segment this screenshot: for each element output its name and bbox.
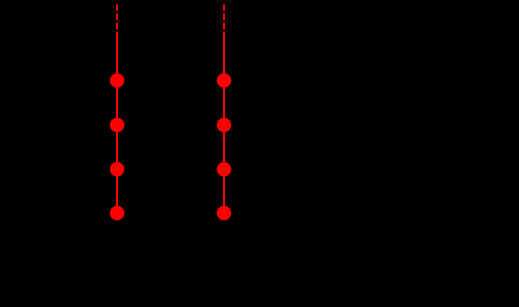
chain 1 site dot 3 — [110, 162, 125, 177]
chain 1 site dot 2 — [110, 118, 125, 133]
chain 2 site dot 3 — [217, 162, 232, 177]
chain 1 site dot 1 — [110, 73, 125, 88]
chain 2 dashed wire (top) — [223, 4, 225, 29]
chain 1 dashed wire (top) — [116, 4, 118, 29]
chain 2 site dot 4 — [217, 206, 232, 221]
chain 1 solid wire — [116, 32, 118, 221]
chain 2 solid wire — [223, 32, 225, 221]
chain 2 site dot 2 — [217, 118, 232, 133]
chain 2 site dot 1 — [217, 73, 232, 88]
chain 1 site dot 4 — [110, 206, 125, 221]
